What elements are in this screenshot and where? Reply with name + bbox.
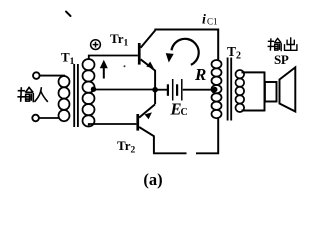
wire T2 secondary to speaker bottom [242,110,265,112]
wire junction to battery [155,89,167,91]
node junction dot [152,87,158,93]
transformer T2 secondary winding [236,70,245,78]
polarity symbol + [91,40,101,50]
transistor Tr1 emitter with arrow [141,59,156,70]
wire bottom rail right segment [196,118,218,153]
transformer T1 core [73,64,75,127]
svg-text:SP: SP [274,52,289,67]
label 输出 (output) [268,38,297,51]
transistor Q Tr2 base bar [136,114,139,131]
stray speck [124,65,126,67]
transformer T2 core [227,58,229,121]
stray mark [66,12,71,17]
transistor Q Tr1 base bar [138,43,141,65]
svg-text:i: i [202,13,206,28]
label 输入 (input) [18,88,47,102]
wire speaker vertical [264,72,266,112]
wire emitter junction vertical [154,70,156,104]
node T2 center tap [212,87,217,92]
svg-text:R: R [194,65,206,84]
transformer T1 secondary winding [83,59,95,70]
svg-text:C1: C1 [207,16,218,26]
svg-text:C: C [181,107,188,118]
current loop arrow iC1 [172,39,199,65]
speaker SP driver box [265,82,277,102]
wire T1 secondary top to Tr1 base [89,56,138,61]
current direction arrow (up) [103,66,105,79]
input terminal bottom [32,115,39,122]
wire T1 secondary bottom to Tr2 base [89,124,137,126]
node T1 center tap [91,87,96,92]
wire center tap to junction [94,89,156,91]
transistor Tr1 collector [141,30,156,48]
wire input top [40,75,65,77]
wire top rail [154,30,218,61]
wire bottom rail left segment [153,152,187,154]
battery EC plates [168,79,182,101]
wire T2 secondary to speaker top [242,71,265,73]
transistor Tr2 collector (down) [139,127,154,153]
input terminal top [33,72,40,79]
transformer T2 primary winding [212,60,222,68]
speaker SP cone [280,67,296,111]
transformer T1 primary winding [59,76,70,87]
svg-text:(a): (a) [143,170,162,189]
wire input bottom [39,117,59,119]
wire battery to T2 tap [183,89,215,91]
transistor Tr2 emitter (up) with arrow [139,104,155,117]
